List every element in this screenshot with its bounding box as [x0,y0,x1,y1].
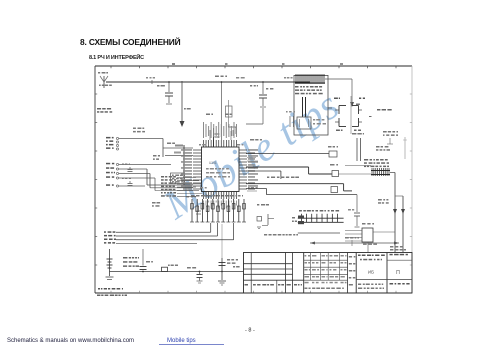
svg-text:П: П [396,270,400,276]
svg-text:- 8 -: - 8 - [245,328,255,334]
svg-text:Schematics & manuals on www.mo: Schematics & manuals on www.mobilchina.c… [7,338,134,344]
svg-text:ИБ: ИБ [368,270,374,275]
svg-text:U101: U101 [209,161,217,165]
svg-text:8. СХЕМЫ СОЕДИНЕНИЙ: 8. СХЕМЫ СОЕДИНЕНИЙ [80,36,181,47]
svg-text:Mobile tips: Mobile tips [167,338,196,344]
svg-text:8.1 РЧ И ИНТЕРФЕЙС: 8.1 РЧ И ИНТЕРФЕЙС [89,53,144,61]
